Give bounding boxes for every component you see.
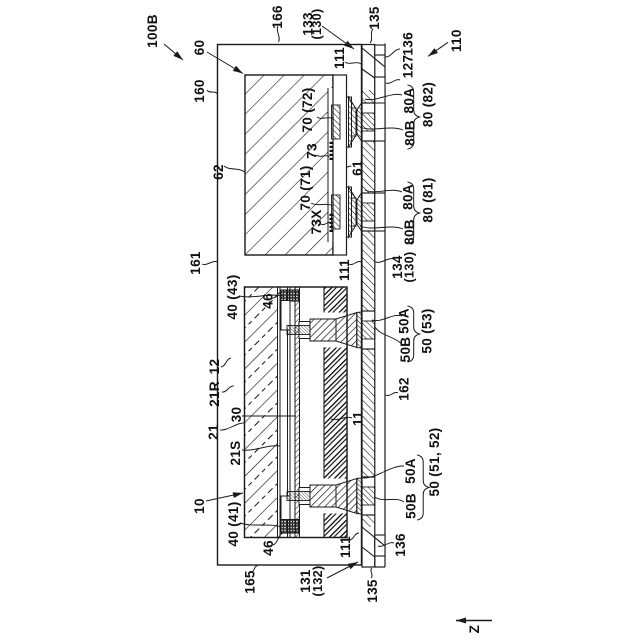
svg-text:80B: 80B bbox=[402, 120, 417, 146]
svg-text:(130): (130) bbox=[310, 9, 324, 40]
svg-text:61: 61 bbox=[350, 160, 365, 176]
wiring channel 40 bbox=[281, 496, 290, 520]
svg-text:160: 160 bbox=[192, 79, 207, 103]
bump 80B bbox=[357, 103, 362, 141]
IDT electrode 73X (teeth) bbox=[330, 230, 334, 232]
svg-text:30: 30 bbox=[229, 407, 244, 423]
svg-text:60: 60 bbox=[192, 40, 207, 56]
svg-text:(130): (130) bbox=[403, 252, 417, 283]
svg-text:50B: 50B bbox=[403, 493, 418, 519]
bump 135 (right corner, diagonals) bbox=[362, 48, 385, 67]
svg-text:50A: 50A bbox=[403, 458, 418, 484]
svg-text:50B: 50B bbox=[398, 337, 413, 363]
svg-text:73X: 73X bbox=[309, 209, 324, 234]
svg-text:46: 46 bbox=[261, 540, 276, 556]
piezoelectric substrate 61 bbox=[333, 75, 347, 255]
svg-text:(132): (132) bbox=[311, 566, 325, 597]
svg-text:135: 135 bbox=[365, 579, 380, 603]
wiring substrate 130 (hatched) bbox=[362, 515, 375, 527]
cavity of filter 60 bbox=[328, 88, 333, 242]
svg-text:100B: 100B bbox=[145, 14, 160, 48]
svg-text:161: 161 bbox=[188, 251, 203, 275]
svg-text:21R: 21R bbox=[207, 381, 222, 407]
pad 127 bbox=[375, 77, 385, 141]
wiring electrode 40 band bbox=[299, 322, 310, 339]
svg-text:11: 11 bbox=[351, 411, 366, 426]
svg-text:46: 46 bbox=[260, 293, 275, 309]
electrode 70 steps bbox=[347, 97, 352, 147]
svg-text:21S: 21S bbox=[228, 440, 243, 465]
electrode 70 feed-through (hatched) bbox=[332, 195, 341, 229]
IDT electrode 73 (teeth) bbox=[330, 158, 334, 160]
svg-text:135: 135 bbox=[367, 6, 382, 30]
cover block 62 of filter 60 (hatched) bbox=[245, 75, 333, 255]
svg-text:136: 136 bbox=[400, 32, 415, 56]
svg-text:162: 162 bbox=[396, 377, 411, 401]
svg-text:40 (43): 40 (43) bbox=[225, 274, 240, 319]
bump 135 (left corner, diagonals) bbox=[362, 527, 385, 546]
svg-text:110: 110 bbox=[449, 29, 464, 52]
bump 50B bbox=[357, 312, 362, 348]
layer boundary lines 21S/21R bbox=[277, 287, 279, 538]
electrode 70 steps bbox=[347, 187, 352, 237]
svg-text:70 (72): 70 (72) bbox=[300, 87, 315, 132]
pad (bump 80(81) land) bbox=[375, 193, 385, 231]
pad 136 (left end, target bottom) bbox=[375, 535, 385, 556]
svg-text:50 (53): 50 (53) bbox=[419, 308, 434, 353]
svg-text:21: 21 bbox=[206, 424, 221, 440]
wiring channel 40 bbox=[281, 301, 290, 331]
svg-text:10: 10 bbox=[192, 498, 207, 514]
svg-text:50A: 50A bbox=[396, 308, 411, 334]
bump 80A bbox=[349, 97, 357, 147]
functional electrode layer 30 (thin hatched) bbox=[295, 287, 300, 538]
svg-text:166: 166 bbox=[270, 5, 285, 29]
via 46 (left / target-bottom) bbox=[281, 520, 299, 534]
svg-text:136: 136 bbox=[393, 533, 408, 557]
cover layer 11 (thick/thin hatched) bbox=[324, 514, 347, 538]
bump 80B bbox=[357, 193, 362, 231]
svg-text:80 (81): 80 (81) bbox=[420, 177, 435, 222]
device 10 outline bbox=[245, 287, 348, 538]
bump 80A bbox=[349, 187, 357, 237]
svg-text:50 (51, 52): 50 (51, 52) bbox=[427, 427, 442, 496]
svg-text:80B: 80B bbox=[402, 219, 417, 245]
via 46 (right / target-top) bbox=[281, 290, 299, 301]
svg-text:111: 111 bbox=[332, 47, 347, 69]
resin frame 160 bbox=[218, 45, 362, 566]
svg-text:80 (82): 80 (82) bbox=[420, 82, 435, 127]
svg-text:70 (71): 70 (71) bbox=[298, 165, 313, 210]
acoustic wave device 10: support substrate 12 (hatched w/ dashed) bbox=[245, 287, 278, 538]
svg-text:127: 127 bbox=[400, 55, 415, 79]
bump 50A bbox=[310, 319, 336, 341]
svg-text:165: 165 bbox=[242, 570, 257, 594]
svg-text:Z: Z bbox=[467, 625, 482, 634]
svg-text:62: 62 bbox=[211, 164, 226, 180]
svg-text:111: 111 bbox=[337, 259, 352, 281]
wiring electrode 40 band bbox=[299, 488, 310, 505]
svg-text:12: 12 bbox=[207, 359, 222, 375]
z-axis arrow bbox=[456, 620, 492, 622]
mounting board 110 surface line bbox=[384, 44, 386, 568]
svg-text:73: 73 bbox=[304, 143, 319, 159]
pad 136 (right end, target top) bbox=[375, 45, 385, 55]
svg-text:40 (41): 40 (41) bbox=[226, 501, 241, 546]
bump 50A bbox=[310, 485, 336, 507]
bump 50B bbox=[357, 478, 362, 514]
via conductors 111 through substrate (hatched blocks) bbox=[362, 487, 375, 505]
electrode 70 feed-through (hatched) bbox=[332, 105, 341, 139]
